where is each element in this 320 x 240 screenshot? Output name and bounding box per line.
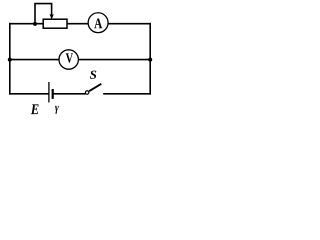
wire: left vertical (top-left corner to bottom-left corner)	[9, 24, 11, 94]
node: junction dot middle-left	[8, 58, 12, 62]
ammeter circle	[88, 13, 108, 33]
background	[0, 0, 159, 120]
wire: middle wire right (voltmeter to node)	[79, 59, 150, 61]
battery E: short thick plate	[52, 89, 54, 99]
battery internal resistance label r	[55, 106, 59, 114]
wire: switch to bottom-right corner	[104, 93, 150, 95]
wire: top wire from left corner to rheostat box	[10, 23, 43, 25]
battery label E	[31, 104, 39, 114]
wire: right vertical (top-right corner to bottom-right corner)	[149, 24, 151, 94]
wire: rheostat slider tap (up, across, down)	[35, 4, 52, 24]
wire: bottom wire from left corner to battery	[10, 93, 48, 95]
wire: rheostat box to ammeter	[67, 23, 88, 25]
wire: battery to switch	[54, 93, 85, 95]
wire: ammeter to top-right corner	[109, 23, 151, 25]
switch S pivot contact circle	[85, 91, 89, 95]
switch label S	[90, 71, 96, 79]
node: junction dot at slider tap on top wire	[33, 22, 37, 26]
voltmeter label V	[66, 53, 73, 62]
resistor (rheostat) R body	[43, 19, 67, 28]
switch S lever arm	[89, 84, 101, 91]
ammeter label A	[94, 19, 102, 29]
wire: middle wire left (node to voltmeter)	[10, 59, 59, 61]
battery E: long plate	[48, 82, 50, 103]
node: junction dot middle-right	[148, 58, 152, 62]
voltmeter circle	[59, 50, 78, 69]
arrowhead of slider onto resistor	[50, 14, 54, 19]
